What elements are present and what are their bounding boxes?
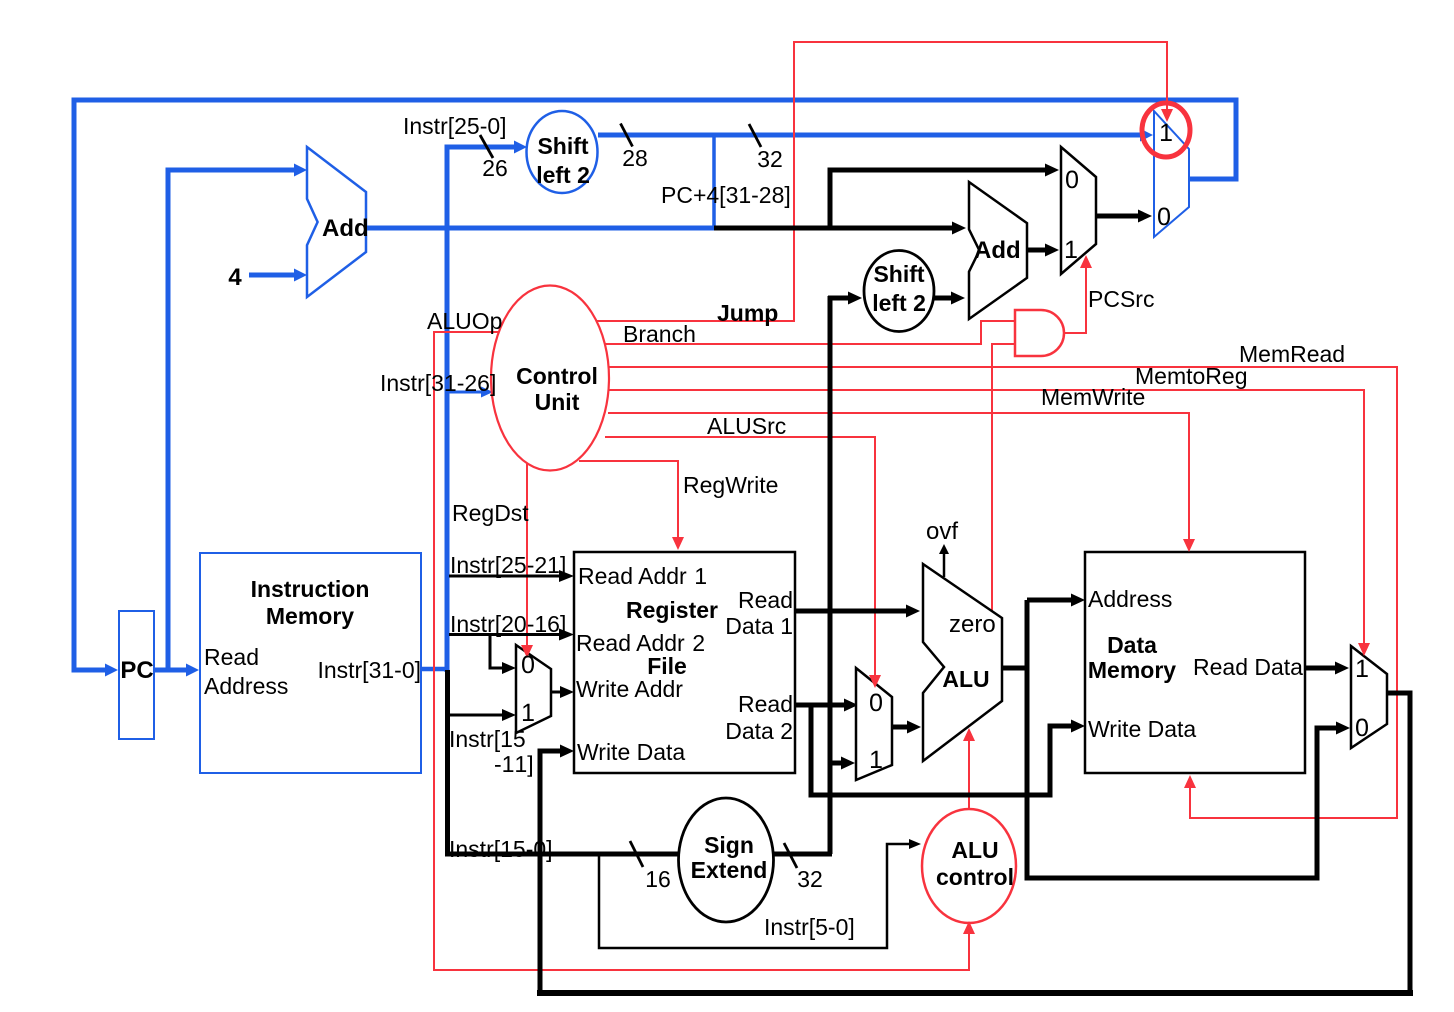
svg-text:left: left bbox=[872, 290, 907, 316]
svg-text:RegWrite: RegWrite bbox=[683, 472, 778, 498]
svg-text:Unit: Unit bbox=[535, 389, 580, 415]
svg-text:Instr[5-0]: Instr[5-0] bbox=[764, 914, 855, 940]
svg-text:ALU: ALU bbox=[951, 837, 998, 863]
svg-text:ALUOp: ALUOp bbox=[427, 308, 502, 334]
svg-text:Read Addr: Read Addr bbox=[578, 563, 687, 589]
svg-text:Instr[31-26]: Instr[31-26] bbox=[380, 370, 496, 396]
svg-text:Add: Add bbox=[974, 237, 1021, 264]
svg-text:RegDst: RegDst bbox=[452, 500, 529, 526]
svg-text:left: left bbox=[536, 162, 571, 188]
svg-text:Instr[15: Instr[15 bbox=[449, 726, 526, 752]
svg-text:Jump: Jump bbox=[717, 300, 778, 326]
svg-text:Read: Read bbox=[738, 691, 793, 717]
svg-text:Address: Address bbox=[204, 673, 288, 699]
svg-text:PC: PC bbox=[120, 657, 153, 684]
svg-text:Write Data: Write Data bbox=[1088, 716, 1196, 742]
svg-text:ALUSrc: ALUSrc bbox=[707, 413, 786, 439]
svg-text:Read: Read bbox=[204, 644, 259, 670]
svg-text:Data: Data bbox=[725, 718, 774, 744]
svg-text:Shift: Shift bbox=[873, 261, 924, 287]
svg-text:Sign: Sign bbox=[704, 832, 754, 858]
svg-text:Data: Data bbox=[725, 613, 774, 639]
svg-text:Instr[25-21]: Instr[25-21] bbox=[450, 552, 566, 578]
svg-text:Instr[25-0]: Instr[25-0] bbox=[403, 113, 507, 139]
svg-text:MemWrite: MemWrite bbox=[1041, 384, 1145, 410]
svg-text:PC+4[31-28]: PC+4[31-28] bbox=[661, 182, 791, 208]
svg-text:Write Data: Write Data bbox=[577, 739, 685, 765]
svg-text:Instruction: Instruction bbox=[251, 576, 370, 602]
svg-text:Instr[20-16]: Instr[20-16] bbox=[450, 611, 566, 637]
svg-text:Address: Address bbox=[1088, 586, 1172, 612]
svg-text:Instr[31-0]: Instr[31-0] bbox=[317, 657, 421, 683]
svg-text:Read: Read bbox=[738, 587, 793, 613]
svg-text:control: control bbox=[936, 864, 1014, 890]
svg-text:PCSrc: PCSrc bbox=[1088, 286, 1154, 312]
svg-text:Memory: Memory bbox=[266, 603, 354, 629]
svg-text:MemRead: MemRead bbox=[1239, 341, 1345, 367]
svg-text:MemtoReg: MemtoReg bbox=[1135, 363, 1247, 389]
svg-text:Instr[15-0]: Instr[15-0] bbox=[449, 836, 553, 862]
svg-text:ovf: ovf bbox=[926, 518, 958, 545]
svg-text:Memory: Memory bbox=[1088, 657, 1176, 683]
svg-text:Data: Data bbox=[1107, 632, 1157, 658]
svg-text:Register: Register bbox=[626, 597, 718, 623]
svg-text:File: File bbox=[647, 653, 687, 679]
svg-text:Read Data: Read Data bbox=[1193, 654, 1303, 680]
svg-text:Write Addr: Write Addr bbox=[576, 676, 683, 702]
svg-text:Add: Add bbox=[322, 215, 369, 242]
svg-text:Shift: Shift bbox=[537, 133, 588, 159]
svg-text:Extend: Extend bbox=[691, 857, 768, 883]
svg-text:zero: zero bbox=[949, 611, 996, 638]
svg-text:ALU: ALU bbox=[942, 666, 989, 692]
svg-text:Branch: Branch bbox=[623, 321, 696, 347]
svg-text:Control: Control bbox=[516, 363, 598, 389]
